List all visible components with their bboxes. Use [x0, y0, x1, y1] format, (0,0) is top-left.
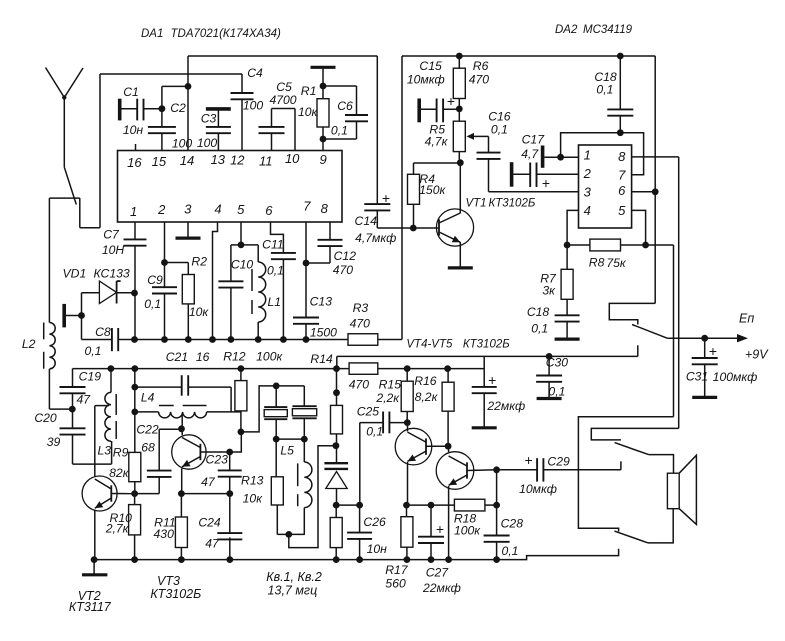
wire top rail pin14 — [188, 55, 377, 57]
wire bottom bus — [94, 549, 619, 560]
svg-text:R6: R6 — [473, 59, 489, 73]
crystal Кв2 — [303, 386, 305, 406]
svg-text:R1: R1 — [301, 84, 317, 98]
wire C18 to pin1 — [561, 133, 621, 158]
svg-text:+: + — [525, 452, 533, 468]
svg-text:10: 10 — [285, 151, 300, 166]
junction C27 top — [428, 502, 435, 509]
junction VT1 collector — [457, 159, 464, 166]
svg-text:C15: C15 — [419, 59, 442, 73]
wire rail to pole3 — [578, 417, 673, 532]
terminal X5 — [541, 146, 545, 168]
wire C2 to pin14 — [161, 86, 163, 108]
svg-text:9: 9 — [319, 152, 326, 167]
svg-text:4,7мкф: 4,7мкф — [355, 231, 396, 245]
resistor R11 — [180, 494, 182, 517]
capacitor C27 — [430, 505, 432, 537]
svg-text:8: 8 — [618, 149, 626, 164]
svg-text:470: 470 — [350, 316, 371, 330]
svg-text:100мкф: 100мкф — [713, 370, 758, 384]
junction bottom bus — [91, 556, 98, 563]
capacitor C1 — [120, 108, 137, 110]
wire DA1 pin4 — [213, 222, 218, 340]
junction VT2 base node — [131, 490, 138, 497]
junction varicap top — [333, 442, 340, 449]
svg-text:C17: C17 — [522, 132, 546, 146]
wire R14 varicap drop — [336, 369, 338, 406]
junction Кв2 bottom — [301, 436, 308, 443]
junction C30 — [546, 353, 553, 360]
capacitor C29 — [497, 469, 537, 471]
transistor VT3 КТ3102Б — [172, 435, 206, 469]
junction C9 bus — [161, 336, 168, 343]
svg-text:150к: 150к — [419, 183, 446, 197]
antenna WA1 — [46, 68, 65, 98]
capacitor C25 — [360, 422, 383, 424]
svg-text:0,1: 0,1 — [85, 344, 102, 358]
svg-text:VT4-VT5: VT4-VT5 — [406, 339, 453, 351]
svg-text:100: 100 — [197, 136, 218, 150]
junction bottom bus — [131, 556, 138, 563]
wire quartz bottoms — [276, 438, 304, 440]
wire AGC bus — [82, 339, 112, 341]
svg-text:47: 47 — [205, 536, 220, 550]
svg-text:430: 430 — [154, 527, 175, 541]
wire rail to pole2 — [591, 428, 678, 440]
svg-text:68: 68 — [141, 441, 155, 455]
junction R18 right — [493, 502, 500, 509]
wire pin6 — [632, 191, 656, 193]
svg-text:+9V: +9V — [745, 348, 769, 362]
svg-text:0,1: 0,1 — [366, 425, 383, 439]
capacitor C18 bottom — [555, 314, 580, 316]
resistor R16 — [447, 369, 449, 383]
capacitor C22 — [135, 493, 160, 495]
switch SA1 pole2 arm — [615, 443, 649, 455]
capacitor C19 — [72, 369, 74, 387]
svg-text:0,1: 0,1 — [267, 264, 284, 278]
svg-text:R15: R15 — [379, 378, 402, 392]
svg-text:C21: C21 — [166, 350, 188, 364]
junction Кв1 top — [273, 383, 280, 390]
resistor R2 — [165, 262, 189, 264]
junction C11 bus — [280, 336, 287, 343]
junction R2 bus — [185, 336, 192, 343]
svg-text:+: + — [542, 175, 550, 191]
svg-text:5: 5 — [237, 202, 245, 217]
transistor VT1 КТ3102Б — [459, 163, 461, 214]
junction R1 bottom — [320, 136, 327, 143]
junction bottom bus — [178, 556, 185, 563]
switch SA1 pole1 arm — [632, 325, 667, 339]
svg-text:10к: 10к — [298, 105, 319, 119]
capacitor C30 — [548, 356, 550, 375]
svg-text:470: 470 — [349, 378, 370, 392]
svg-text:2,7к: 2,7к — [105, 522, 130, 536]
wire to varicap node — [289, 446, 336, 548]
svg-text:+: + — [488, 372, 496, 388]
junction C31 — [701, 335, 708, 342]
junction C15 — [456, 106, 463, 113]
capacitor C16 — [477, 152, 501, 154]
svg-text:13,7 мгц: 13,7 мгц — [268, 584, 318, 598]
terminal X2 — [206, 107, 231, 111]
svg-text:C23: C23 — [206, 453, 229, 467]
inductor L3 — [110, 369, 112, 393]
svg-text:4: 4 — [584, 203, 591, 218]
svg-text:C11: C11 — [262, 238, 283, 252]
wire C18 to pin7 — [620, 133, 643, 175]
wire R14 riser — [336, 356, 338, 368]
svg-text:TDA7021(К174ХА34): TDA7021(К174ХА34) — [171, 28, 282, 40]
wire pin1 — [561, 156, 579, 158]
resistor R12 — [240, 369, 242, 381]
svg-text:3: 3 — [184, 202, 192, 217]
svg-text:+: + — [436, 521, 444, 537]
capacitor C26 — [359, 505, 361, 532]
svg-text:L1: L1 — [268, 295, 282, 309]
svg-text:R17: R17 — [385, 563, 409, 577]
junction VT4 base — [445, 443, 452, 450]
capacitor C3 — [217, 109, 219, 127]
wire pin8 — [632, 156, 679, 158]
wire C25 drop — [359, 423, 361, 506]
speaker BA1 — [667, 473, 679, 509]
junction bottom bus — [428, 556, 435, 563]
junction bus2 — [404, 365, 411, 372]
junction C1-C2 — [159, 105, 166, 112]
svg-text:4,7: 4,7 — [521, 147, 539, 161]
svg-text:10н: 10н — [123, 123, 144, 137]
junction pin7 C12 — [303, 260, 310, 267]
svg-text:14: 14 — [180, 153, 194, 168]
svg-text:22мкф: 22мкф — [422, 581, 461, 595]
junction C18 — [617, 129, 624, 136]
svg-text:R14: R14 — [310, 352, 333, 366]
wire bus2 left — [73, 368, 350, 370]
junction C19 C20 — [69, 406, 76, 413]
svg-text:C4: C4 — [247, 66, 263, 80]
svg-text:C8: C8 — [95, 325, 111, 339]
svg-text:VT1: VT1 — [465, 198, 486, 210]
svg-text:10мкф: 10мкф — [407, 73, 445, 87]
resistor R20 — [335, 505, 337, 517]
svg-text:1: 1 — [584, 148, 591, 163]
svg-text:C13: C13 — [310, 295, 333, 309]
svg-text:R12: R12 — [223, 349, 246, 363]
svg-text:0,1: 0,1 — [531, 321, 548, 335]
junction R13 bottom — [285, 531, 292, 538]
svg-text:L4: L4 — [141, 391, 155, 405]
svg-text:100: 100 — [172, 136, 193, 150]
junction bus2 — [108, 365, 115, 372]
svg-text:8,2к: 8,2к — [415, 390, 439, 404]
junction VT4 emitter — [403, 502, 410, 509]
svg-text:+: + — [709, 343, 717, 359]
junction VT3 base — [226, 449, 233, 456]
capacitor C15 — [421, 108, 437, 110]
junction pin2 R2 — [161, 259, 168, 266]
capacitor C9 — [164, 222, 166, 287]
svg-text:DA1: DA1 — [141, 28, 163, 40]
svg-text:C5: C5 — [276, 80, 292, 94]
svg-text:L3: L3 — [98, 443, 112, 457]
capacitor C8 — [111, 328, 113, 351]
capacitor C24 — [229, 494, 231, 533]
svg-text:100к: 100к — [454, 524, 481, 538]
svg-text:0,1: 0,1 — [548, 385, 565, 399]
svg-text:КТ3102Б: КТ3102Б — [488, 198, 535, 210]
svg-text:L5: L5 — [280, 443, 294, 457]
svg-text:R3: R3 — [353, 301, 369, 315]
junction DA2 pin1 — [557, 154, 564, 161]
ground C18 bottom — [555, 338, 580, 341]
svg-text:L2: L2 — [22, 337, 36, 351]
wire pole3 to speaker — [648, 509, 673, 543]
junction bottom bus — [404, 556, 411, 563]
inductor L2 — [49, 323, 55, 369]
svg-text:C1: C1 — [123, 85, 139, 99]
wire pole2 to speaker — [649, 455, 674, 474]
wire C29 contact stub — [620, 461, 622, 470]
svg-text:10мкф: 10мкф — [519, 482, 557, 496]
wire VT3 base riser — [230, 432, 242, 452]
transistor VT4 КТ3102Б — [395, 428, 432, 465]
junction bottom bus — [226, 556, 233, 563]
capacitor C20 — [60, 427, 86, 429]
svg-text:C27: C27 — [426, 566, 450, 580]
svg-text:Еп: Еп — [739, 312, 754, 326]
junction L4 tap — [131, 409, 138, 416]
svg-text:C25: C25 — [357, 405, 380, 419]
capacitor C17 — [513, 173, 530, 175]
svg-text:C31: C31 — [686, 369, 708, 383]
svg-text:47: 47 — [201, 475, 216, 489]
junction bus2 — [333, 365, 340, 372]
crystal Кв1 — [275, 386, 277, 407]
junction R15 bottom — [404, 419, 411, 426]
svg-text:2,2к: 2,2к — [375, 391, 400, 405]
svg-text:10н: 10н — [367, 542, 388, 556]
svg-text:47: 47 — [77, 393, 92, 407]
junction R8 left — [564, 242, 571, 249]
svg-text:C18: C18 — [527, 305, 550, 319]
svg-text:C9: C9 — [147, 273, 163, 287]
capacitor C14 — [364, 203, 390, 205]
junction L1 bus — [255, 336, 262, 343]
wire antenna coupling — [49, 197, 79, 199]
resistor R14 — [349, 363, 378, 374]
wire DA1 pin5 — [240, 222, 242, 245]
resistor R7 — [566, 245, 568, 269]
junction bottom bus — [445, 556, 452, 563]
resistor R19 — [331, 405, 343, 434]
junction varicap bottom — [333, 502, 340, 509]
svg-text:+: + — [447, 93, 455, 109]
svg-text:0,1: 0,1 — [331, 123, 348, 137]
wire R8 rail — [673, 245, 675, 417]
capacitor C28 — [496, 505, 498, 535]
capacitor C2 — [161, 109, 163, 127]
svg-text:R16: R16 — [414, 374, 437, 388]
svg-text:1: 1 — [130, 204, 137, 219]
terminal X6 — [510, 162, 514, 187]
ground C30 — [537, 397, 562, 400]
svg-text:VT3: VT3 — [157, 574, 180, 588]
svg-text:82к: 82к — [109, 466, 130, 480]
ground above R1 — [311, 66, 336, 69]
wire emitter row — [407, 504, 455, 506]
svg-text:0,1: 0,1 — [491, 123, 508, 137]
svg-text:0,1: 0,1 — [502, 544, 519, 558]
resistor R9 — [129, 452, 141, 481]
svg-text:R8: R8 — [589, 255, 605, 269]
svg-text:560: 560 — [385, 577, 406, 591]
junction VT3 emitter — [178, 490, 185, 497]
svg-text:C29: C29 — [547, 454, 570, 468]
wire top rail to C4 — [100, 73, 242, 75]
junction pin14 — [185, 83, 192, 90]
junction R6 rail — [456, 53, 463, 60]
junction bottom bus — [333, 556, 340, 563]
wire R13 L5 bottoms — [277, 533, 305, 535]
junction R12 bottom — [238, 429, 245, 436]
junction bus2 — [444, 365, 451, 372]
resistor R4 — [408, 174, 420, 204]
svg-text:R13: R13 — [241, 473, 264, 487]
svg-text:3к: 3к — [542, 284, 556, 298]
svg-text:C24: C24 — [198, 515, 221, 529]
svg-text:39: 39 — [47, 435, 61, 449]
svg-text:КТ3102Б: КТ3102Б — [150, 587, 201, 601]
terminal X4 — [417, 99, 421, 123]
capacitor C12 — [329, 222, 331, 240]
junction R8 right — [642, 242, 649, 249]
capacitor C11 — [271, 222, 284, 253]
svg-text:16: 16 — [127, 155, 142, 170]
svg-text:13: 13 — [211, 152, 226, 167]
svg-text:10Н: 10Н — [102, 243, 125, 257]
svg-text:16: 16 — [196, 350, 210, 364]
junction L4 tap VT3 — [178, 425, 185, 432]
svg-text:470: 470 — [333, 263, 354, 277]
resistor R6 — [458, 56, 460, 68]
wire R4 top — [414, 162, 460, 164]
capacitor C4 — [241, 74, 243, 93]
resistor R18 — [454, 499, 485, 511]
wire emitter row VT3 — [181, 493, 229, 495]
svg-text:КТ3117: КТ3117 — [69, 600, 112, 614]
varicap VD2 — [336, 446, 338, 464]
svg-text:8: 8 — [321, 201, 329, 216]
wire bus2 right — [378, 368, 484, 370]
svg-text:7: 7 — [303, 199, 311, 214]
wire pin5 — [632, 210, 646, 245]
svg-text:R2: R2 — [191, 255, 207, 269]
svg-text:15: 15 — [152, 154, 167, 169]
svg-text:100к: 100к — [256, 349, 283, 363]
svg-text:+: + — [382, 190, 390, 206]
svg-text:4: 4 — [214, 202, 221, 217]
svg-text:5: 5 — [618, 203, 626, 218]
wire pin6 rail to switch — [654, 56, 656, 303]
svg-text:C14: C14 — [355, 214, 378, 228]
resistor R8 — [567, 244, 590, 246]
capacitor C32 22мкф — [472, 386, 497, 388]
svg-text:C16: C16 — [488, 110, 511, 124]
resistor R17 — [406, 505, 408, 517]
capacitor C6 — [323, 85, 357, 87]
junction pin4 bus — [209, 336, 216, 343]
capacitor C18 top — [617, 53, 624, 60]
resistor R1 — [322, 67, 324, 98]
resistor R15 — [406, 369, 408, 382]
wire R9 chain — [134, 369, 136, 453]
wire rail R3 — [401, 56, 403, 340]
svg-text:R9: R9 — [113, 445, 129, 459]
junction VT5 base — [493, 466, 500, 473]
junction pin6 rail — [652, 188, 659, 195]
junction C23 bottom — [226, 490, 233, 497]
svg-text:4,7к: 4,7к — [425, 135, 449, 149]
ground VT2 emitter — [93, 560, 95, 574]
op-amp DA1 TDA7021 body — [118, 151, 343, 223]
svg-text:3: 3 — [584, 184, 592, 199]
zener diode VD1 КС133 — [82, 292, 100, 294]
inductor L1 — [241, 244, 258, 246]
svg-text:4700: 4700 — [269, 93, 296, 107]
wire varicap row — [336, 504, 359, 506]
terminal X3 — [62, 304, 66, 328]
wire +9V — [667, 337, 741, 339]
capacitor C31 — [704, 338, 706, 358]
resistor R13 — [275, 439, 277, 477]
junction pin1 bus — [131, 336, 138, 343]
svg-text:1500: 1500 — [310, 326, 337, 340]
transistor VT5 КТ3102Б — [436, 452, 474, 490]
wire L4 center tap — [181, 414, 183, 429]
svg-text:DA2: DA2 — [555, 24, 578, 36]
wire switch to rail — [637, 345, 639, 356]
svg-text:C22: C22 — [136, 422, 159, 436]
inductor L4 — [135, 411, 159, 413]
svg-text:100: 100 — [243, 98, 264, 112]
svg-text:12: 12 — [230, 153, 245, 168]
capacitor C10 — [231, 244, 241, 246]
switch SA1 pole3 arm — [614, 531, 648, 543]
svg-text:11: 11 — [259, 153, 273, 168]
ground DA1 pin3 — [187, 222, 189, 238]
svg-text:470: 470 — [469, 73, 490, 87]
wire C14 feed — [376, 56, 378, 204]
junction bottom bus — [493, 556, 500, 563]
svg-text:C6: C6 — [337, 99, 353, 113]
transistor VT2 КТ3117 — [82, 476, 117, 511]
capacitor C7 — [134, 222, 136, 239]
svg-text:10к: 10к — [243, 492, 264, 506]
resistor R10 — [134, 494, 136, 505]
svg-text:75к: 75к — [606, 256, 627, 270]
svg-text:7: 7 — [618, 168, 626, 183]
svg-text:2: 2 — [157, 202, 166, 217]
DA1 pin16 stub — [135, 144, 137, 151]
junction C10 bus — [228, 336, 235, 343]
svg-text:КТ3102Б: КТ3102Б — [463, 339, 510, 351]
svg-text:6: 6 — [265, 203, 273, 218]
junction bus2 — [131, 365, 138, 372]
svg-text:6: 6 — [618, 183, 626, 198]
svg-text:МС34119: МС34119 — [583, 24, 633, 36]
